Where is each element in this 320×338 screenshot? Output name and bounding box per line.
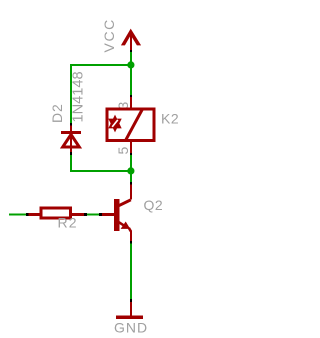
wire bottom horizontal (diode branch to node B) (70, 170, 132, 172)
svg-text:Q2: Q2 (144, 197, 164, 213)
wire node A down to relay pin 3 (130, 65, 132, 95)
svg-text:K2: K2 (161, 111, 179, 127)
relay K2 pin 5 (130, 142, 132, 153)
node A junction dot (127, 61, 134, 68)
resistor R2 right lead (72, 213, 84, 216)
overlap relay pin3/net (130, 95, 132, 97)
overlap Q2 collector pin/net (130, 182, 132, 185)
overlap D2 anode pin/net (70, 152, 72, 155)
overlap Q2 base pin/net (99, 213, 102, 216)
wire top horizontal (node A to diode branch) (70, 64, 132, 66)
overlap GND pin/net (130, 299, 132, 302)
junction overlap VCC pin/net (130, 50, 132, 52)
wire base net (87, 214, 99, 216)
relay K2 coil box (107, 109, 154, 141)
svg-text:VCC: VCC (101, 18, 117, 52)
wire emitter to GND (130, 244, 132, 300)
node B junction dot (127, 167, 134, 174)
ground GND (116, 302, 143, 319)
wire diode branch vertical down to D2 cathode (70, 64, 72, 124)
resistor R2 left lead (29, 213, 41, 216)
svg-text:1N4148: 1N4148 (71, 71, 87, 122)
svg-text:GND: GND (114, 320, 148, 336)
resistor R2 (41, 208, 71, 218)
svg-text:5: 5 (115, 147, 131, 155)
transistor Q2 (102, 185, 132, 243)
wire VCC stem to node A (130, 52, 132, 65)
wire input net (9, 214, 26, 216)
wire relay pin5 to node B and down to Q2 collector (130, 155, 132, 183)
overlap Q2 emitter pin/net (130, 241, 132, 244)
svg-text:R2: R2 (58, 215, 78, 231)
wire D2 anode down to bottom horizontal (70, 155, 72, 172)
overlap D2 cathode pin/net (70, 123, 72, 126)
svg-text:D2: D2 (49, 103, 65, 123)
overlap R2 right pin/net (84, 213, 87, 216)
supply VCC (121, 29, 141, 50)
overlap R2 left pin/net (26, 213, 29, 216)
diode D2 1N4148 (61, 126, 81, 153)
relay K2 pin 3 (130, 97, 132, 109)
overlap relay pin5/net (130, 153, 132, 156)
